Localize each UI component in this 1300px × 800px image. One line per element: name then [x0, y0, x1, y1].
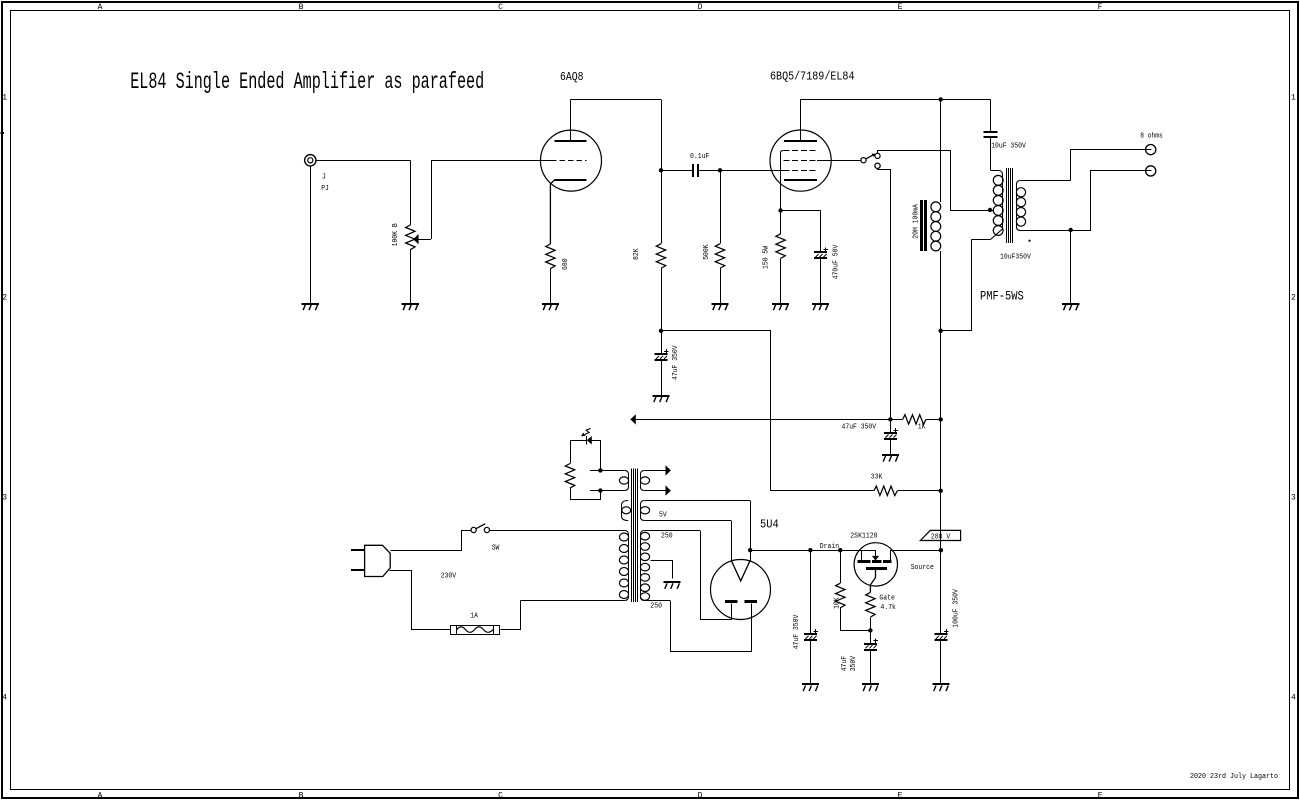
- svg-text:20H 100mA: 20H 100mA: [913, 204, 921, 239]
- svg-text:350V: 350V: [850, 656, 858, 672]
- svg-text:E: E: [898, 792, 903, 800]
- svg-text:4: 4: [1291, 694, 1296, 703]
- svg-text:5V: 5V: [659, 512, 667, 520]
- svg-text:6BQ5/7189/EL84: 6BQ5/7189/EL84: [770, 71, 855, 84]
- svg-text:100K B: 100K B: [392, 223, 400, 246]
- svg-text:5U4: 5U4: [760, 519, 779, 532]
- svg-text:6AQ8: 6AQ8: [560, 71, 584, 84]
- svg-text:3: 3: [2, 494, 7, 503]
- svg-text:C: C: [498, 3, 503, 12]
- svg-text:47uF: 47uF: [841, 656, 849, 672]
- svg-text:A: A: [98, 3, 103, 12]
- svg-text:F: F: [1098, 3, 1103, 12]
- svg-text:82K: 82K: [633, 248, 641, 260]
- svg-text:B: B: [299, 792, 304, 800]
- svg-text:B: B: [299, 3, 304, 12]
- svg-text:0.1uF: 0.1uF: [690, 153, 710, 161]
- svg-text:500K: 500K: [703, 244, 711, 260]
- svg-text:10K: 10K: [833, 597, 841, 609]
- svg-text:47uF 350V: 47uF 350V: [793, 614, 801, 649]
- svg-text:230V: 230V: [441, 573, 457, 581]
- svg-text:3: 3: [1291, 494, 1296, 503]
- svg-text:F: F: [1098, 792, 1103, 800]
- svg-text:47uF 350V: 47uF 350V: [672, 345, 680, 380]
- svg-text:Gate: Gate: [879, 595, 895, 603]
- svg-text:2020 23rd July Lagarto: 2020 23rd July Lagarto: [1190, 773, 1278, 781]
- svg-text:PJ: PJ: [321, 185, 329, 193]
- svg-text:150 5W: 150 5W: [763, 246, 771, 269]
- svg-text:8 ohms: 8 ohms: [1140, 133, 1163, 141]
- svg-text:D: D: [698, 792, 703, 800]
- svg-text:1: 1: [1291, 94, 1296, 103]
- svg-text:10uF350V: 10uF350V: [1000, 254, 1031, 262]
- svg-text:1: 1: [2, 94, 7, 103]
- svg-text:2: 2: [2, 294, 7, 303]
- svg-text:EL84 Single Ended Amplifier as: EL84 Single Ended Amplifier as parafeed: [130, 70, 484, 96]
- svg-text:250: 250: [650, 603, 662, 611]
- svg-text:47uF 350V: 47uF 350V: [842, 423, 877, 431]
- svg-text:1K: 1K: [918, 424, 926, 432]
- svg-text:PMF-5WS: PMF-5WS: [980, 290, 1024, 304]
- svg-text:Source: Source: [911, 564, 934, 572]
- svg-text:Drain: Drain: [820, 543, 839, 551]
- svg-text:1A: 1A: [470, 612, 478, 620]
- svg-text:10uF 350V: 10uF 350V: [991, 143, 1026, 151]
- svg-text:4: 4: [2, 694, 7, 703]
- svg-text:A: A: [98, 792, 103, 800]
- svg-text:C: C: [498, 792, 503, 800]
- svg-text:E: E: [898, 3, 903, 12]
- svg-text:680: 680: [562, 258, 570, 270]
- svg-text:280 V: 280 V: [931, 534, 951, 542]
- svg-text:470uF 50V: 470uF 50V: [833, 244, 841, 279]
- svg-text:100uF 350V: 100uF 350V: [952, 589, 960, 628]
- svg-text:2SK1120: 2SK1120: [850, 532, 878, 540]
- svg-text:4.7k: 4.7k: [881, 604, 897, 612]
- svg-text:SW: SW: [492, 544, 500, 552]
- svg-text:D: D: [698, 3, 703, 12]
- svg-text:2: 2: [1291, 294, 1296, 303]
- svg-text:J: J: [322, 174, 326, 182]
- svg-text:250: 250: [661, 532, 673, 540]
- svg-text:33K: 33K: [871, 474, 883, 482]
